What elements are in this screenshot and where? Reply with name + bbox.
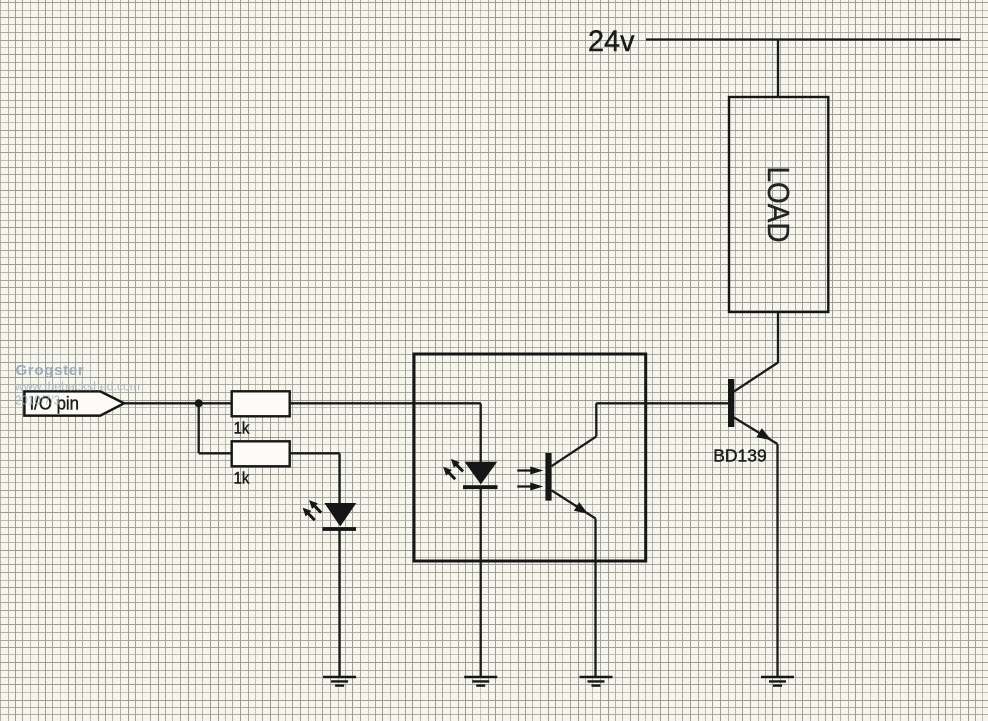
svg-text:2010/7/3: 2010/7/3 <box>15 393 60 408</box>
svg-text:1k: 1k <box>234 469 250 488</box>
svg-text:www.thebackshed.com: www.thebackshed.com <box>14 380 140 394</box>
svg-text:LOAD: LOAD <box>761 167 796 243</box>
svg-text:24v: 24v <box>588 25 635 58</box>
svg-text:BD139: BD139 <box>713 446 767 466</box>
svg-text:1k: 1k <box>234 419 250 438</box>
svg-text:Grogster: Grogster <box>16 362 85 379</box>
